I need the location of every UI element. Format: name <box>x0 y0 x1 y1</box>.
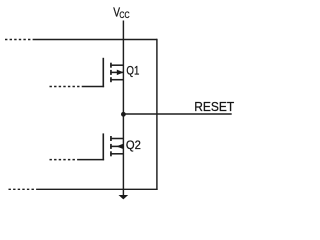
wire: Q2 gate dashed lead <box>50 159 79 161</box>
wire: Q1 middle stub (body) <box>110 71 123 73</box>
Q1 body arrow (points right, PMOS) <box>117 70 124 76</box>
wire: Q1 top stub to rail <box>110 64 123 66</box>
svg-text:Q2: Q2 <box>126 138 141 152</box>
transistor Q2 (NMOS, bottom) <box>50 133 124 160</box>
wire: top rail solid from left to top-right corner <box>33 39 157 41</box>
svg-text:RESET: RESET <box>194 99 234 114</box>
wire: top rail dashed continuation (left) <box>5 39 33 41</box>
wire: VCC vertical rail down through Q1, node, Q2 to ground <box>122 21 124 196</box>
ground <box>119 195 129 199</box>
wire: Q1 gate solid lead <box>83 86 104 88</box>
transistor Q1 (PMOS, top) <box>50 58 124 87</box>
Q1 gate bar <box>102 58 104 87</box>
wire: bottom rail dashed continuation (left) <box>9 188 39 190</box>
wire: Q1 gate dashed lead <box>50 86 84 88</box>
Q1 channel tick (drain side) <box>110 77 112 82</box>
wire: Q2 gate solid lead <box>78 159 104 161</box>
wire: Q2 top stub to rail <box>110 138 123 140</box>
Q2 gate bar <box>102 133 104 160</box>
Q2 channel tick (body) <box>110 144 112 149</box>
wire: RESET output wire <box>123 113 231 115</box>
Q1 channel tick (source side) <box>110 63 112 68</box>
svg-text:CC: CC <box>119 10 130 20</box>
Q1 channel tick (body) <box>110 70 112 75</box>
Q2 channel tick (source side) <box>110 151 112 156</box>
node: output junction dot <box>121 112 126 117</box>
svg-text:Q1: Q1 <box>126 64 139 78</box>
Q2 body arrow (points left, NMOS) <box>116 144 123 149</box>
wire: Q2 bottom stub to rail <box>110 153 123 155</box>
Q2 channel tick (drain side) <box>110 136 112 141</box>
wire: right vertical side of loop <box>156 39 158 190</box>
wire: Q1 bottom stub to rail <box>110 79 123 81</box>
wire: Q2 middle stub (body) <box>110 145 123 147</box>
wire: bottom rail solid to bottom-right corner <box>38 188 158 190</box>
